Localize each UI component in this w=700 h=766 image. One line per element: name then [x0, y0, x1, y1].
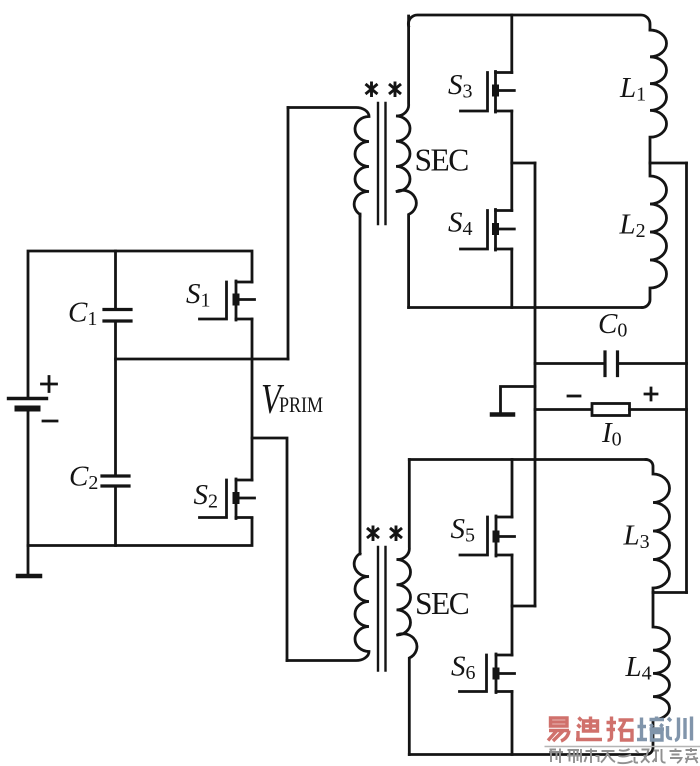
svg-text:C0: C0: [598, 308, 627, 342]
wire: output plus bus vertical: [685, 163, 688, 593]
svg-text:SEC: SEC: [415, 143, 469, 178]
wire: S3 source to S4 drain midpoint column: [510, 111, 513, 211]
svg-text:S1: S1: [186, 278, 211, 312]
svg-text:S4: S4: [448, 207, 473, 241]
wire: L1-L2 junction jog to right bus: [650, 162, 687, 165]
wire: top box bottom rail: [409, 306, 642, 309]
wire: S1 source down across mid rail to S2 drain: [251, 319, 254, 480]
wire: S6 source to bottom rail: [511, 692, 514, 755]
wire: output minus bus vertical: [534, 163, 537, 606]
svg-text:S2: S2: [194, 479, 219, 513]
wire: mid rail from capacitor column to primary column: [116, 358, 289, 361]
transformer T2 secondary winding: [397, 460, 417, 755]
svg-text:SEC: SEC: [415, 586, 469, 621]
battery long plate: [9, 397, 47, 400]
wire: S4 source to top box bottom rail: [510, 249, 513, 308]
wire: I0 left lead: [535, 408, 592, 411]
watermark underline: [545, 746, 700, 748]
ground stub below battery loop: [27, 546, 30, 575]
inductor L4: [646, 593, 670, 755]
wire: C1 bottom plate to mid rail to C2 top plate: [114, 323, 117, 475]
polarity asterisk T2 right: [391, 527, 401, 540]
wire: bridge midpoint lower tap to bottom primary: [252, 438, 287, 661]
svg-text:L4: L4: [625, 651, 652, 685]
minus polarity label: [568, 395, 580, 398]
inductor L3: [646, 460, 670, 593]
mosfet S6: [460, 654, 515, 693]
transformer T1 core: [378, 103, 386, 224]
mosfet S4: [461, 210, 515, 251]
ground bar: [492, 412, 513, 417]
wire: mid rail up to top primary: [287, 108, 290, 360]
wire: series link top primary bottom to bottom primary top: [359, 214, 362, 554]
wire: midpoint down to S6 drain: [511, 606, 514, 655]
wire: midpoint jog to output minus bus: [512, 605, 535, 608]
wire: I0 right lead: [630, 408, 687, 411]
svg-text:S6: S6: [451, 651, 476, 685]
transformer T2 primary winding: [287, 554, 369, 661]
wire: C0 left lead: [535, 362, 605, 365]
capacitor C2 plates: [102, 476, 129, 486]
wire: battery negative down left side, bottom rail, up to S2 source: [28, 410, 252, 546]
wire: battery positive up left side, top rail, down to S1 drain: [28, 251, 252, 397]
inductor L1: [650, 30, 667, 163]
transformer T1 primary winding: [288, 107, 369, 216]
polarity asterisk T1 right: [390, 83, 400, 96]
battery minus label: [43, 420, 57, 423]
inductor L2: [642, 163, 667, 308]
svg-text:L3: L3: [623, 520, 650, 554]
mosfet S5: [460, 516, 515, 556]
svg-text:S5: S5: [451, 513, 476, 547]
polarity asterisk T2 left: [368, 527, 378, 540]
svg-text:C2: C2: [69, 461, 98, 495]
battery short plate: [18, 406, 38, 412]
wire: midpoint jog to output minus bus: [512, 162, 535, 165]
svg-text:C1: C1: [68, 297, 97, 331]
wire: L3-L4 junction jog to right bus: [653, 591, 687, 594]
mosfet S1: [200, 281, 255, 320]
polarity asterisk T1 left: [367, 83, 377, 96]
battery plus label: [42, 377, 57, 392]
transformer T1 secondary winding: [396, 16, 416, 308]
wire: S5 source down to midpoint jog: [511, 555, 514, 606]
capacitor C0 plates: [605, 352, 618, 376]
wire: C0 right lead: [618, 362, 687, 365]
svg-text:L2: L2: [619, 209, 646, 243]
ground bar: [18, 574, 40, 579]
watermark logo peixun blue characters: [637, 717, 692, 741]
wire: bottom box bottom rail: [409, 753, 646, 756]
watermark logo yiditop red characters: [548, 717, 634, 742]
plus polarity label: [645, 388, 657, 400]
watermark gray slogan characters: [549, 748, 698, 763]
mosfet S3: [461, 72, 515, 113]
transformer T2 core: [378, 547, 386, 671]
svg-text:PRIM: PRIM: [279, 393, 323, 417]
svg-text:L1: L1: [619, 72, 646, 106]
capacitor C1 plates: [104, 310, 131, 322]
mosfet S2: [200, 479, 255, 519]
ground symbol at output minus: [501, 387, 536, 413]
svg-text:I0: I0: [601, 417, 622, 451]
wire: C2 bottom plate to bottom rail: [114, 488, 117, 546]
wire: top rail down to S5 drain: [511, 460, 514, 518]
wire: top rail down to S3 drain: [510, 15, 513, 73]
wire: top box top rail: [408, 15, 650, 30]
wire: top rail to C1 top plate: [114, 251, 117, 308]
load I0 box: [592, 404, 630, 416]
svg-text:S3: S3: [448, 69, 473, 103]
wire: bottom box top rail: [409, 458, 646, 461]
